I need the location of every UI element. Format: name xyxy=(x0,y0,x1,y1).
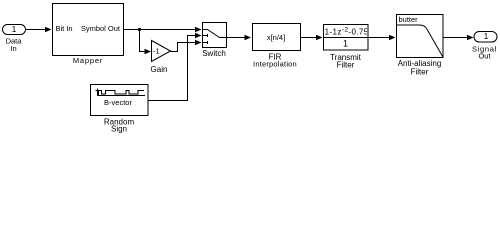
svg-text:-1: -1 xyxy=(153,47,160,56)
wire Anti-aliasing Filter to Signal Out xyxy=(443,35,474,41)
svg-text:1: 1 xyxy=(12,24,17,34)
svg-text:1: 1 xyxy=(484,31,489,41)
block Anti-aliasing Filter (butter) xyxy=(397,15,444,77)
svg-text:Symbol Out: Symbol Out xyxy=(81,24,121,33)
block FIR Interpolation xyxy=(253,24,301,69)
wire junction down to Gain xyxy=(140,30,152,55)
svg-text:Sign: Sign xyxy=(111,125,127,134)
output port 1 (Signal Out oval) xyxy=(472,31,497,61)
node junction on Mapper output xyxy=(138,28,141,31)
svg-text:In: In xyxy=(10,44,16,53)
svg-text:1: 1 xyxy=(343,39,348,49)
svg-text:Filter: Filter xyxy=(337,61,355,70)
wire Random Sign to Switch input 2 xyxy=(148,33,202,101)
wire Mapper to Switch input 1 xyxy=(124,27,202,33)
wire Switch to FIR Interpolation xyxy=(227,35,252,41)
wire Gain to Switch input 3 xyxy=(171,40,202,52)
svg-text:butter: butter xyxy=(399,15,419,24)
block Transmit Filter xyxy=(322,25,371,70)
svg-text:Bit In: Bit In xyxy=(56,24,73,33)
gain block -1 (Gain) xyxy=(151,41,171,75)
wire FIR Interpolation to Transmit Filter xyxy=(301,35,323,41)
svg-text:Mapper: Mapper xyxy=(73,56,103,65)
block Random Sign (B-vector) xyxy=(91,85,149,134)
wire Transmit Filter to Anti-aliasing Filter xyxy=(368,35,396,41)
svg-text:Gain: Gain xyxy=(151,65,168,74)
block Mapper xyxy=(53,4,124,66)
svg-text:Interpolation: Interpolation xyxy=(253,60,297,69)
svg-text:x[n/4]: x[n/4] xyxy=(267,33,285,42)
svg-text:Switch: Switch xyxy=(202,49,226,58)
block Switch xyxy=(202,23,226,59)
svg-text:Out: Out xyxy=(478,52,491,61)
svg-text:Filter: Filter xyxy=(411,67,429,76)
svg-text:B-vector: B-vector xyxy=(104,98,132,107)
input port 1 (Data In oval) xyxy=(3,24,26,53)
wire Data In to Mapper xyxy=(26,27,52,33)
